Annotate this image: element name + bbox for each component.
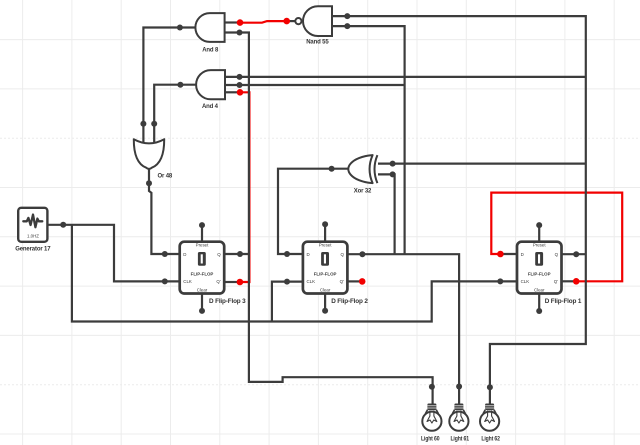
svg-text:D Flip-Flop 3: D Flip-Flop 3	[209, 299, 246, 305]
svg-text:Clear: Clear	[534, 288, 545, 293]
wire: FF1 D stub	[501, 253, 518, 255]
wire: And 4 input 2 from FF2 Q net	[224, 84, 405, 86]
wire: Xor input 2 from FF2 Q net	[378, 174, 395, 254]
d-flip-flop U1 (D Flip-Flop 1)	[517, 242, 582, 305]
d-flip-flop U2 (D Flip-Flop 2)	[303, 242, 369, 305]
and-gate And 4	[196, 70, 225, 110]
wire: FF2 preset stub	[324, 225, 326, 243]
wire: FF3 Q stub to net	[224, 253, 249, 255]
wire: Xor 32 output to FF2 D	[278, 169, 349, 254]
svg-text:FLIP-FLOP: FLIP-FLOP	[191, 272, 214, 277]
wire: red FF3 Q' to And 4 input 3	[239, 92, 249, 282]
nand-gate Nand 55	[295, 6, 332, 45]
svg-text:Clear: Clear	[197, 288, 208, 293]
or-gate Or 48 (pointing down)	[134, 139, 173, 179]
wire: Nand in2 from FF2 Q net	[331, 26, 405, 254]
light L61 (Light 61)	[449, 404, 469, 443]
svg-text:Preset: Preset	[533, 243, 546, 248]
wire: FF3 clear stub	[201, 293, 203, 311]
svg-text:1.0HZ: 1.0HZ	[27, 234, 39, 239]
svg-text:D: D	[183, 252, 186, 257]
light L62 (Light 62)	[480, 404, 501, 443]
svg-text:Light 62: Light 62	[481, 437, 500, 443]
wire: generator branch down to bottom bus, FF1 CLK	[72, 225, 518, 322]
svg-text:Q: Q	[555, 252, 559, 257]
svg-text:FLIP-FLOP: FLIP-FLOP	[528, 272, 551, 277]
svg-text:Nand 55: Nand 55	[306, 40, 329, 46]
wire: FF2 Q' stub	[347, 280, 361, 282]
svg-text:Preset: Preset	[319, 243, 332, 248]
svg-text:D Flip-Flop 1: D Flip-Flop 1	[545, 299, 582, 305]
wire: generator net to FF3 CLK	[48, 225, 181, 282]
wire: Nand output stub	[288, 20, 296, 22]
node: dark junction dots	[60, 13, 579, 390]
and-gate And 8	[195, 13, 224, 53]
svg-text:Q': Q'	[216, 279, 220, 284]
wire: And 4 input 1 from FF1 Q net	[224, 76, 586, 78]
wire: FF3 Q' stub	[224, 281, 239, 283]
svg-text:Light 61: Light 61	[450, 437, 469, 443]
svg-text:Q: Q	[340, 252, 344, 257]
svg-text:Q: Q	[217, 252, 221, 257]
wire: FF1 clear stub	[538, 293, 540, 311]
wire: FF1 Q stub to net	[561, 253, 585, 255]
xor-gate Xor 32 (facing left)	[348, 155, 377, 194]
wire: FF1 Q' stub	[561, 280, 575, 282]
wire: red Nand 55 output to And 8 input 1	[239, 21, 288, 23]
wire: FF1 preset stub	[538, 226, 540, 243]
wire: FF3 preset stub	[201, 226, 203, 243]
svg-text:CLK: CLK	[521, 279, 530, 284]
svg-text:And 8: And 8	[202, 47, 219, 53]
wire: And 4 input 3 stub	[224, 91, 239, 93]
light L60 (Light 60)	[421, 404, 442, 443]
svg-text:FLIP-FLOP: FLIP-FLOP	[314, 272, 337, 277]
wire: And 8 output to Or 48 input 1	[143, 28, 196, 147]
node: red junction dots	[237, 18, 580, 286]
wire: FF1 Q net vertical to Light 62 / Nand in1	[331, 16, 586, 404]
svg-text:Clear: Clear	[320, 288, 331, 293]
wire: And 8 input stubs	[224, 21, 239, 23]
svg-text:D Flip-Flop 2: D Flip-Flop 2	[331, 299, 368, 305]
wire: FF2 Q to Light 61	[347, 254, 459, 404]
svg-text:Preset: Preset	[196, 243, 209, 248]
svg-text:And 4: And 4	[202, 104, 219, 110]
svg-text:Light 60: Light 60	[421, 437, 440, 443]
generator G17 (Generator 17)	[15, 208, 51, 253]
wire: branch to FF2 CLK	[272, 282, 304, 322]
wire: And 4 output to Or 48 input 2	[154, 85, 197, 146]
wire: FF2 clear stub	[324, 293, 326, 311]
svg-text:D: D	[521, 252, 524, 257]
svg-text:Q': Q'	[340, 279, 344, 284]
svg-text:Xor 32: Xor 32	[354, 188, 372, 194]
svg-text:D: D	[307, 252, 310, 257]
wire: red feedback loop Q' of FF1 to D of FF1	[491, 193, 622, 282]
svg-text:Or 48: Or 48	[158, 173, 173, 179]
wire: And8 in2 / FF3 Q net down to Light 60	[224, 33, 433, 405]
wire: Or 48 output to FF3 D	[149, 167, 181, 254]
svg-text:Q': Q'	[554, 279, 558, 284]
d-flip-flop U3 (D Flip-Flop 3)	[180, 242, 247, 305]
svg-text:Generator 17: Generator 17	[15, 247, 51, 253]
svg-text:CLK: CLK	[183, 279, 192, 284]
svg-text:CLK: CLK	[307, 279, 316, 284]
wire: Xor input 1 from FF1 Q net	[378, 163, 586, 165]
